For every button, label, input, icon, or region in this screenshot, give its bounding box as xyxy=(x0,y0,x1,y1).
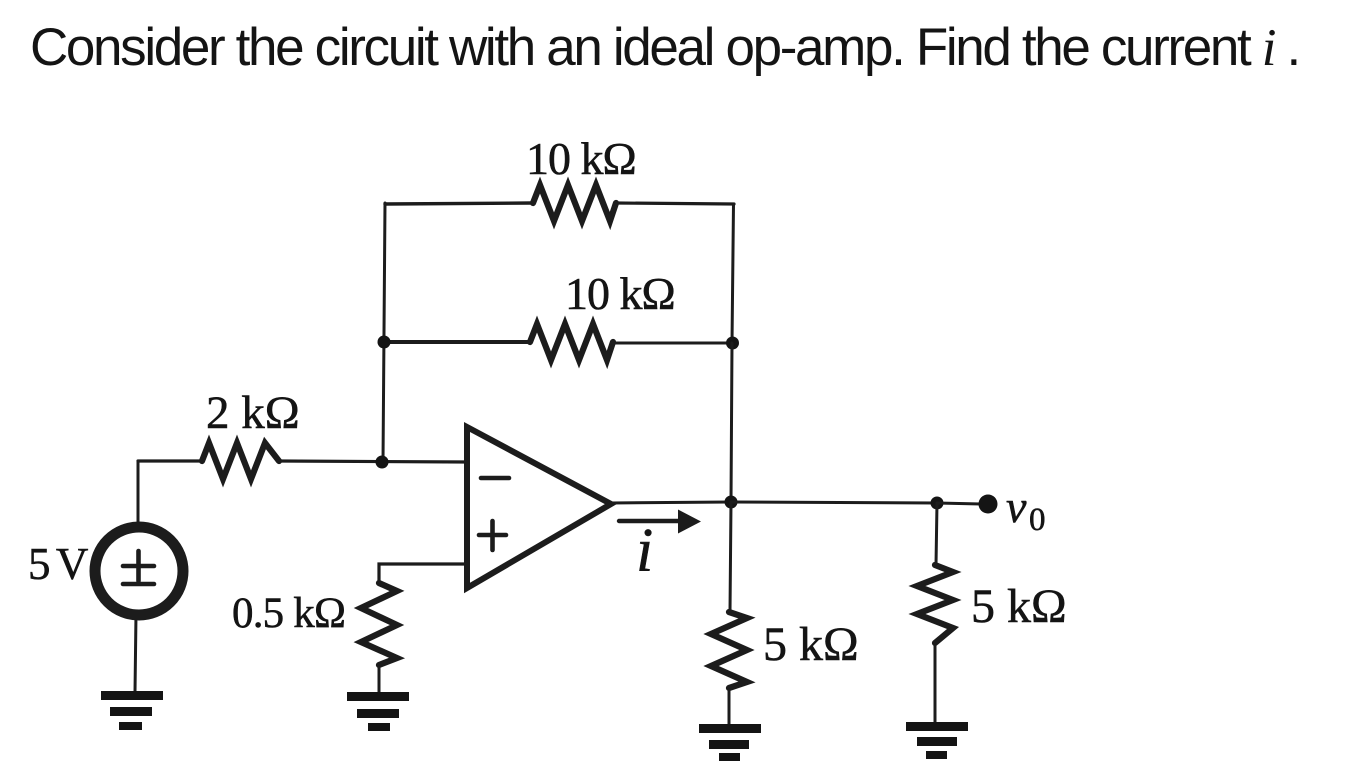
current label i xyxy=(636,520,653,582)
resistor R6 5 k ohm (right) xyxy=(917,565,953,643)
ground G3 (below left 5k) xyxy=(699,724,761,761)
wire: top rail right segment xyxy=(616,203,734,204)
wire: top feedback left vertical (inverting node up to top rail) xyxy=(383,203,385,462)
plus-minus symbol inside source xyxy=(123,551,154,584)
wire: middle rail left segment xyxy=(384,340,530,344)
node E (v0 branch junction) xyxy=(931,497,944,510)
wire: 2k left lead xyxy=(138,459,202,462)
node D (output junction) xyxy=(725,496,738,509)
wire: left 5k bottom lead xyxy=(728,688,731,725)
wire: right 5k bottom lead xyxy=(934,643,937,722)
ground G4 (below right 5k) xyxy=(906,722,968,759)
wire: right vertical (middle node down to output rail) xyxy=(731,343,732,502)
resistor R1 10 k ohm (top feedback) xyxy=(533,185,616,221)
wire: non-inverting input lead xyxy=(379,564,467,584)
wire: top rail left segment xyxy=(385,203,533,204)
wire: middle rail right segment xyxy=(613,342,732,345)
value label 0.5 kΩ xyxy=(232,592,345,635)
wire: 0.5k bottom lead xyxy=(378,665,381,693)
wire: 2k right lead to op-amp inverting input xyxy=(279,461,467,462)
value label 5 kΩ (left) xyxy=(763,621,859,669)
output label v0 xyxy=(1006,484,1026,530)
voltage source V1 5 V circle xyxy=(95,527,183,615)
resistor R4 0.5 k ohm xyxy=(361,583,397,665)
op-amp U1 triangle xyxy=(467,427,611,588)
node B (right middle junction) xyxy=(726,337,739,350)
wire: source top vertical xyxy=(137,461,140,527)
resistor R5 5 k ohm (left) xyxy=(711,612,747,688)
wire: op-amp output xyxy=(611,502,731,503)
resistor R2 10 k ohm (second feedback) xyxy=(530,324,613,360)
ground G2 (below 0.5k) xyxy=(347,692,409,731)
node C (inverting input junction) xyxy=(376,456,389,469)
wire: to output terminal xyxy=(937,503,981,504)
terminal v0 dot xyxy=(979,495,998,514)
value label 5 V xyxy=(28,542,86,587)
ground G1 (below source) xyxy=(101,691,163,730)
value label 10 kΩ (top) xyxy=(526,136,636,182)
wire: right vertical top (top rail down to middle rail node) xyxy=(732,204,734,343)
op-amp plus sign xyxy=(479,521,506,550)
value label 5 kΩ (right) xyxy=(971,583,1067,631)
wire: right 5k top lead xyxy=(936,503,937,565)
wire: output rail to v0 branch xyxy=(731,502,937,503)
resistor R3 2 k ohm xyxy=(202,443,279,479)
wire: left 5k top lead xyxy=(730,502,731,612)
current arrow i xyxy=(619,519,682,523)
value label 2 kΩ xyxy=(206,390,300,437)
title text xyxy=(30,17,1299,78)
node A (left middle junction) xyxy=(378,336,391,349)
wire: source bottom vertical xyxy=(135,614,136,692)
op-amp minus sign xyxy=(481,476,509,481)
value label 10 kΩ (middle) xyxy=(565,271,675,317)
